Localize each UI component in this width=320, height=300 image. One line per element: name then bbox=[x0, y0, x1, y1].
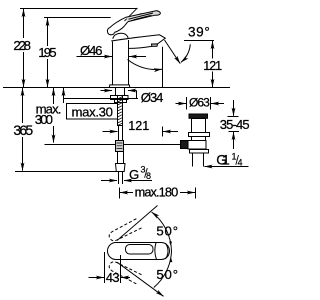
svg-text:Ø34: Ø34 bbox=[141, 90, 164, 105]
svg-text:43: 43 bbox=[106, 270, 120, 285]
svg-text:max.30: max.30 bbox=[72, 104, 114, 119]
svg-text:3: 3 bbox=[141, 165, 146, 175]
svg-text:121: 121 bbox=[128, 119, 149, 133]
svg-text:300: 300 bbox=[35, 112, 53, 127]
svg-text:228: 228 bbox=[13, 38, 31, 53]
svg-text:50°: 50° bbox=[156, 223, 178, 238]
svg-text:50°: 50° bbox=[156, 267, 178, 282]
svg-text:G1: G1 bbox=[216, 151, 230, 167]
svg-text:Ø63: Ø63 bbox=[189, 95, 210, 109]
svg-text:G: G bbox=[129, 167, 139, 182]
svg-text:39°: 39° bbox=[188, 25, 210, 40]
svg-text:121: 121 bbox=[203, 59, 222, 73]
svg-text:4: 4 bbox=[238, 158, 243, 168]
svg-text:max.180: max.180 bbox=[135, 185, 179, 200]
svg-text:1: 1 bbox=[232, 152, 237, 162]
svg-text:35-45: 35-45 bbox=[220, 117, 250, 132]
svg-text:365: 365 bbox=[13, 122, 33, 138]
svg-text:Ø46: Ø46 bbox=[80, 43, 103, 58]
svg-text:195: 195 bbox=[38, 45, 56, 60]
svg-text:8: 8 bbox=[146, 171, 151, 181]
